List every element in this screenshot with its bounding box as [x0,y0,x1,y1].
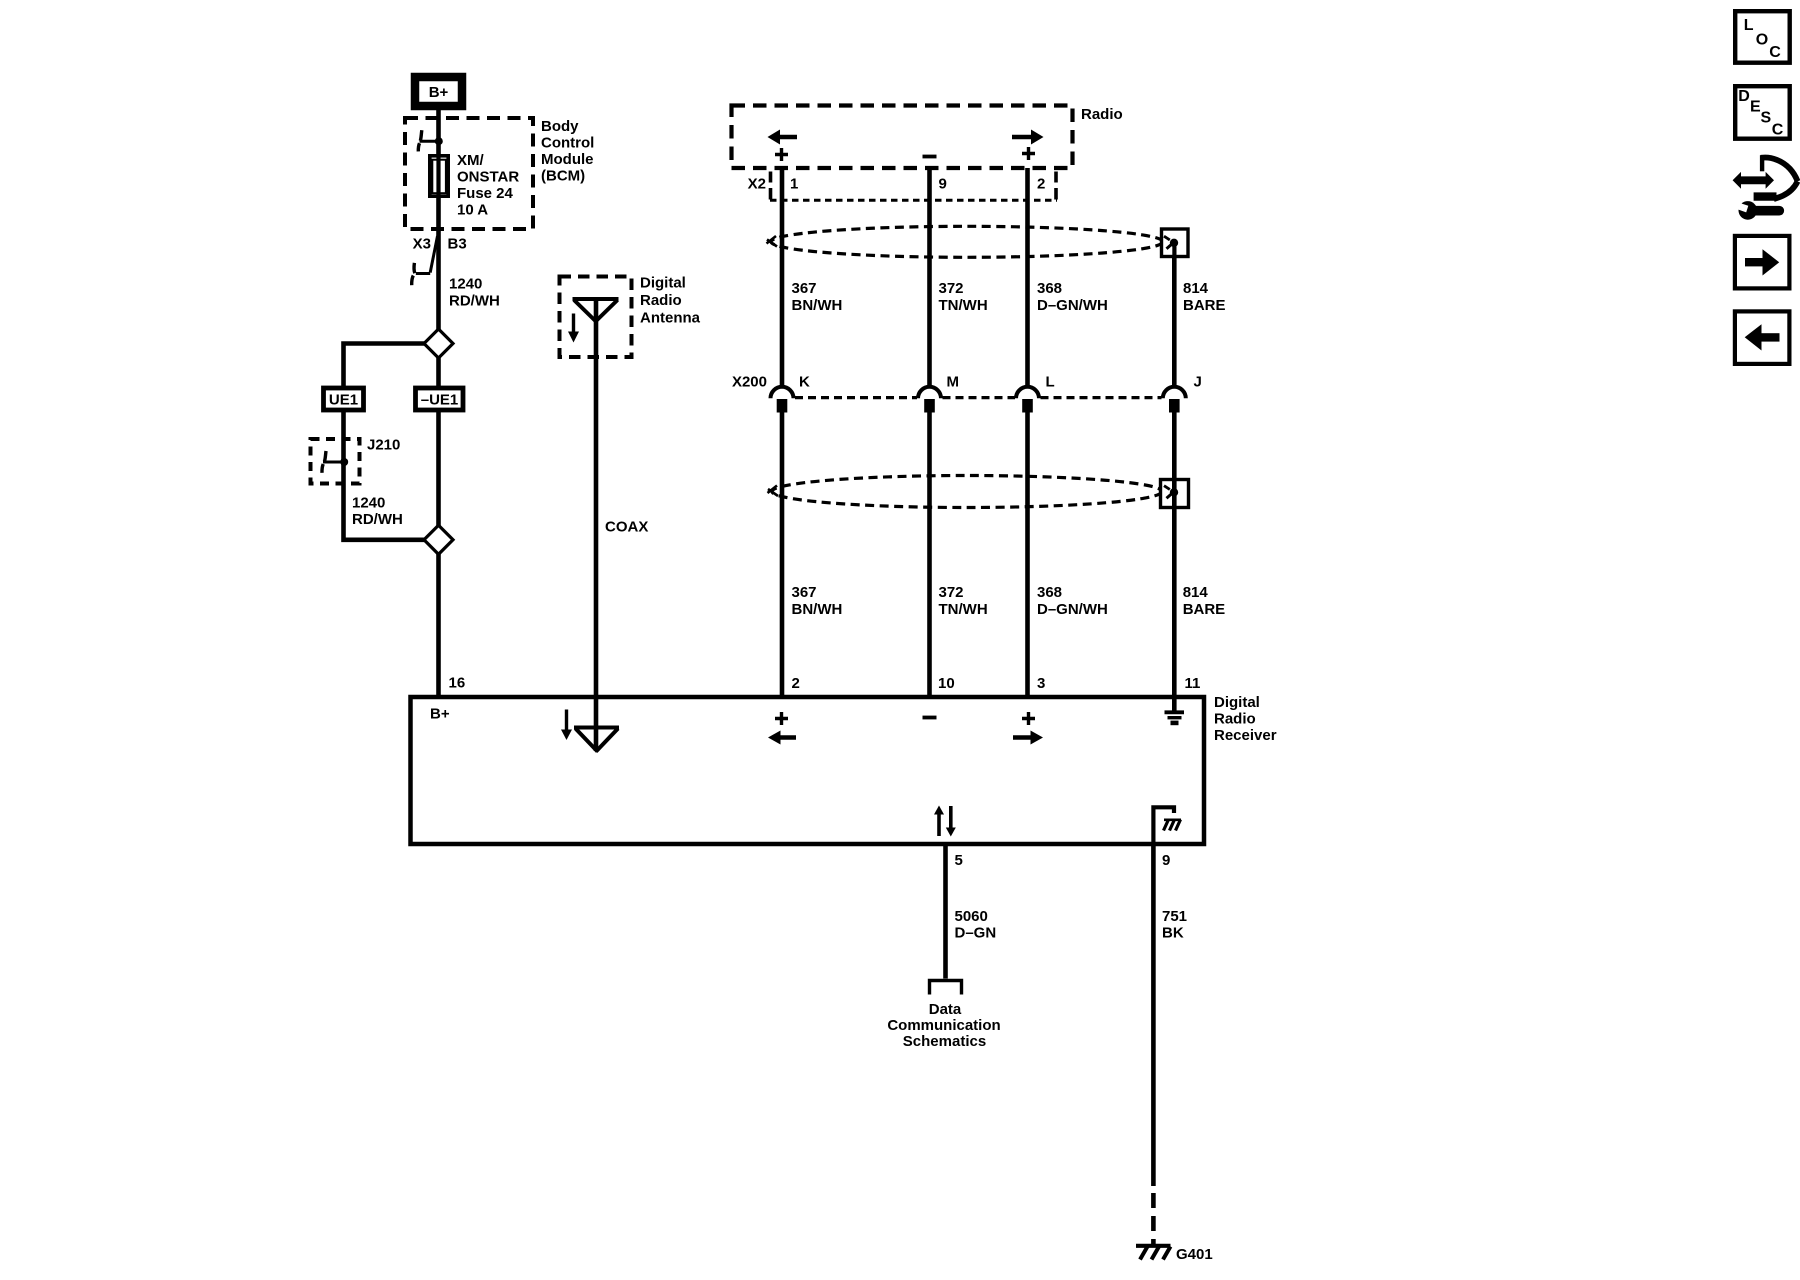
svg-text:TN/WH: TN/WH [939,297,988,314]
X200 male terminal K [777,399,788,413]
wire label 372 TN/WH lower [939,584,988,618]
svg-text:368: 368 [1037,280,1062,297]
in-line connector symbol at X3/B3 [412,236,438,285]
X200 female terminal K [771,387,794,399]
Radio dashed box [732,106,1073,169]
X200 female terminal J [1163,387,1186,399]
wire B+ to fuse/diamond (1240 RD/WH feed) [436,109,441,330]
svg-text:Antenna: Antenna [640,310,701,327]
svg-text:–UE1: –UE1 [421,392,459,409]
wire label 814 BARE lower [1183,584,1226,618]
svg-text:O: O [1756,32,1768,49]
wire 372 TN/WH (X200 M to receiver pin10) [927,412,932,697]
receiver ground symbol (pin11) [1165,697,1185,723]
svg-text:X2: X2 [748,176,766,193]
wire label 5060 D-GN [955,908,997,942]
svg-text:B3: B3 [448,236,467,253]
svg-text:BN/WH: BN/WH [792,601,843,618]
svg-text:ONSTAR: ONSTAR [457,169,519,186]
connector X3 B3 labels [413,236,467,253]
svg-text:C: C [1769,44,1781,61]
svg-text:B+: B+ [429,84,449,101]
receiver plus (pin2) [775,712,788,725]
svg-text:5: 5 [955,852,963,869]
svg-text:UE1: UE1 [329,392,358,409]
svg-text:BK: BK [1162,925,1184,942]
svg-text:M: M [947,374,960,391]
antenna symbol [573,299,619,322]
wire 367 BN/WH (X200 K to receiver pin2) [780,412,785,697]
svg-text:B+: B+ [430,706,450,723]
svg-text:Data: Data [929,1001,962,1018]
svg-text:Schematics: Schematics [903,1033,986,1050]
svg-text:TN/WH: TN/WH [939,601,988,618]
wire label 372 TN/WH upper [939,280,988,314]
fuse value label [457,152,519,219]
X200 female terminal M [918,387,941,399]
svg-text:J210: J210 [367,437,400,454]
wire label 368 D-GN/WH lower [1037,584,1108,618]
splice diamond S1 [424,329,453,358]
svg-text:3: 3 [1037,675,1045,692]
X200 male terminal M [924,399,935,413]
wire -UE1 to diamond S2 [436,410,441,526]
COAX wire (antenna mast to receiver) [594,299,599,751]
off-page connector (data link) [930,981,962,995]
svg-text:D: D [1738,88,1750,105]
J210 dashed box [311,439,360,484]
radio left audio arrow [768,130,798,145]
radio plus label (pin2) [1022,147,1035,160]
dashed wire to G401 [1151,1193,1156,1244]
svg-text:RD/WH: RD/WH [449,293,500,310]
receiver right audio arrow [1013,731,1043,745]
svg-text:Digital: Digital [640,275,686,292]
antenna signal arrow [568,314,579,343]
wire label 814 BARE upper [1183,280,1226,314]
Data Communication Schematics label [887,1001,1000,1050]
X200 female terminal L [1016,387,1039,399]
svg-text:K: K [799,374,810,391]
svg-text:Body: Body [541,118,579,135]
back arrow icon box [1735,311,1790,364]
receiver left audio arrow [768,731,796,745]
svg-text:S: S [1761,109,1772,126]
wire 5060 D-GN (receiver pin5) [943,844,948,979]
jump-to-service icon [1732,155,1797,220]
svg-text:G401: G401 [1176,1246,1213,1263]
X200 connector dashed line K-M [795,396,917,399]
svg-text:C: C [1772,122,1784,139]
wire 751 BK (receiver pin9) [1151,844,1156,1186]
X200 male terminal L [1022,399,1033,413]
receiver minus (pin10) [923,716,937,720]
shield ellipse (upper) [767,226,1164,257]
svg-text:Digital: Digital [1214,694,1260,711]
svg-text:814: 814 [1183,280,1209,297]
shield ellipse (lower) [768,476,1163,508]
svg-text:D–GN: D–GN [955,925,997,942]
splice diamond S2 [424,525,453,554]
Digital Radio Receiver box [411,697,1205,844]
svg-text:814: 814 [1183,584,1209,601]
svg-text:D–GN/WH: D–GN/WH [1037,601,1108,618]
svg-text:372: 372 [939,280,964,297]
LOC icon box [1735,11,1790,63]
wire UE1 to J210 corner [344,411,426,540]
svg-text:Communication: Communication [887,1017,1000,1034]
wire diamond S2 to receiver pin16 [436,553,441,697]
X200 connector dashed line M-L [943,396,1016,399]
J210 splice hook junction [322,451,348,473]
receiver plus (pin3) [1022,712,1035,725]
wire diamond S1 to -UE1 [436,357,441,386]
wire 814 BARE (drain to X200 J) [1172,256,1177,387]
DESC icon box [1735,86,1790,139]
BCM feed hook junction [418,130,443,151]
fusible link -UE1 box [416,388,464,410]
svg-text:10: 10 [938,675,955,692]
svg-text:1240: 1240 [449,276,482,293]
svg-text:1240: 1240 [352,495,385,512]
X200 connector dashed line L-J [1041,396,1162,399]
shield drain box (lower) with junction dot [1161,479,1189,508]
wire diamond S1 to UE1 [344,344,426,387]
receiver serial data arrows (pin5) [934,806,956,837]
svg-text:9: 9 [1162,852,1170,869]
svg-text:BARE: BARE [1183,601,1226,618]
wire label 368 D-GN/WH upper [1037,280,1108,314]
forward arrow icon box [1735,236,1790,289]
wire 367 BN/WH (radio pin1 to X200 K) [780,168,785,387]
svg-text:L: L [1046,374,1055,391]
svg-text:9: 9 [939,176,947,193]
wire label 751 BK [1162,908,1187,942]
svg-text:10 A: 10 A [457,202,488,219]
svg-text:RD/WH: RD/WH [352,511,403,528]
svg-text:16: 16 [449,675,466,692]
BCM label [541,118,594,185]
Digital Radio Antenna dashed box [560,277,632,358]
svg-text:Receiver: Receiver [1214,727,1277,744]
wire label 367 BN/WH lower [792,584,843,618]
radio minus label (pin9) [923,155,937,159]
Digital Radio Antenna label [640,275,701,327]
svg-text:Control: Control [541,135,594,152]
connector X2 outline [770,172,1057,201]
BCM dashed box [405,118,533,229]
wire 368 D-GN/WH (X200 L to receiver pin3) [1025,412,1030,697]
wire label 1240 RD/WH (upper) [449,276,500,310]
svg-text:Radio: Radio [1214,711,1256,728]
shield drain box (upper) with junction dot [1162,229,1189,257]
svg-text:1: 1 [790,176,798,193]
svg-text:Radio: Radio [1081,106,1123,123]
B+ power symbol [415,77,462,106]
radio right audio arrow [1012,130,1044,145]
svg-text:XM/: XM/ [457,152,485,169]
wire 814 BARE (X200 J to receiver pin11) [1172,412,1177,697]
receiver antenna-in arrow [561,710,572,741]
svg-text:372: 372 [939,584,964,601]
wire label 1240 RD/WH (lower) [352,495,403,529]
fuse XM/ONSTAR Fuse 24 10 A [430,155,448,197]
svg-text:2: 2 [1037,176,1045,193]
G401 chassis ground symbol [1136,1246,1171,1260]
svg-text:Fuse 24: Fuse 24 [457,185,514,202]
svg-text:(BCM): (BCM) [541,168,585,185]
svg-text:X3: X3 [413,236,431,253]
svg-text:J: J [1194,374,1202,391]
svg-text:E: E [1750,99,1761,116]
wire 372 TN/WH (radio pin9 to X200 M) [927,168,932,387]
svg-text:751: 751 [1162,908,1187,925]
svg-text:367: 367 [792,280,817,297]
svg-text:BN/WH: BN/WH [792,297,843,314]
X200 male terminal J [1169,399,1180,413]
svg-text:11: 11 [1185,675,1201,692]
radio plus label (pin1) [775,148,788,161]
svg-text:5060: 5060 [955,908,988,925]
svg-text:COAX: COAX [605,519,648,536]
wire label 367 BN/WH upper [792,280,843,314]
wire 368 D-GN/WH (radio pin2 to X200 L) [1025,168,1030,387]
svg-text:L: L [1744,17,1754,34]
receiver antenna triangle [574,728,619,752]
svg-text:D–GN/WH: D–GN/WH [1037,297,1108,314]
svg-text:Module: Module [541,151,594,168]
svg-text:Radio: Radio [640,292,682,309]
svg-text:367: 367 [792,584,817,601]
svg-text:X200: X200 [732,374,767,391]
Digital Radio Receiver label [1214,694,1277,744]
svg-text:368: 368 [1037,584,1062,601]
svg-text:BARE: BARE [1183,297,1226,314]
receiver internal ground hook (pin9) [1153,807,1181,843]
fusible link UE1 box [324,388,364,410]
svg-text:2: 2 [792,675,800,692]
